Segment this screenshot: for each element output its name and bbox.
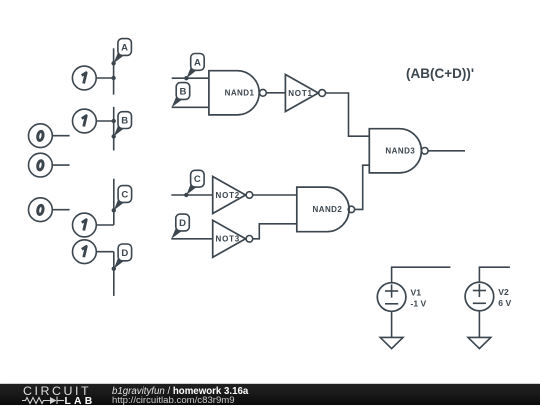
svg-text:LAB: LAB xyxy=(65,396,96,405)
svg-text:6 V: 6 V xyxy=(498,298,511,308)
NAND1 gate xyxy=(209,71,266,115)
svg-text:B: B xyxy=(179,86,186,97)
voltage source V2 6 V xyxy=(465,282,511,311)
wire V2 top xyxy=(479,267,510,282)
svg-text:NAND3: NAND3 xyxy=(385,147,415,156)
footer url text xyxy=(112,395,235,406)
voltage source V1 -1 V xyxy=(377,283,426,312)
wire NAND1 to NOT1 xyxy=(266,92,285,94)
wire NOT2 to NAND2 top input xyxy=(253,194,297,196)
svg-text:D: D xyxy=(121,248,128,259)
NAND3 gate xyxy=(369,129,428,173)
logic source 1 (drives node C) xyxy=(73,213,114,237)
svg-text:(AB(C+D))': (AB(C+D))' xyxy=(406,66,474,81)
svg-text:D: D xyxy=(179,218,186,229)
wire NOT2 input xyxy=(171,194,212,196)
junction dot node A xyxy=(111,76,115,80)
svg-text:NAND1: NAND1 xyxy=(225,89,255,98)
wire NOT1 to NAND3 top input xyxy=(326,93,370,136)
flag D (at NOT3) xyxy=(171,214,189,239)
ground G1 xyxy=(380,337,403,348)
flag B (left column) xyxy=(112,112,132,139)
svg-text:V1: V1 xyxy=(411,287,422,297)
wire NOT3 input xyxy=(171,238,212,240)
svg-text:C: C xyxy=(121,189,128,200)
flag A (at NAND1) xyxy=(184,54,204,81)
wire node C vertical xyxy=(113,179,115,225)
svg-text:A: A xyxy=(121,42,128,53)
flag D (left column) xyxy=(112,244,132,271)
wire NAND3 output xyxy=(428,150,465,152)
svg-text:NOT3: NOT3 xyxy=(216,235,241,244)
flag A (left column) xyxy=(111,39,131,66)
wire V1 bottom xyxy=(391,311,393,337)
logic source 1 (drives node A) xyxy=(72,66,113,90)
wire node A vertical xyxy=(113,48,115,94)
NOT1 gate xyxy=(285,75,325,112)
footer bar xyxy=(0,384,540,405)
logic source 1 (drives node D) xyxy=(73,240,114,264)
flag C (left column) xyxy=(112,186,132,213)
wire NAND2 to NAND3 bottom input xyxy=(355,165,370,209)
logic source 0 (unused #3) xyxy=(29,198,70,222)
wire node B vertical xyxy=(113,107,115,151)
svg-text:NAND2: NAND2 xyxy=(312,205,342,214)
wire NAND1 input A xyxy=(172,77,209,79)
svg-text:A: A xyxy=(194,57,201,68)
logic source 1 (drives node B) xyxy=(73,109,114,133)
NAND2 gate xyxy=(297,187,355,232)
svg-text:B: B xyxy=(121,116,128,127)
NOT3 gate xyxy=(213,220,253,257)
wire NAND1 input B xyxy=(172,106,209,108)
svg-text:C: C xyxy=(194,174,201,185)
NOT2 gate xyxy=(213,177,253,214)
wire node D vertical xyxy=(113,252,115,296)
junction dot node B xyxy=(112,119,116,123)
wire V1 top xyxy=(392,267,451,283)
svg-text:NOT2: NOT2 xyxy=(216,191,241,200)
logic source 0 (unused #2) xyxy=(29,153,70,177)
flag B (at NAND1) xyxy=(172,83,190,108)
footer title text xyxy=(112,386,248,397)
wire NOT3 to NAND2 bottom input xyxy=(253,224,297,239)
flag C (at NOT2) xyxy=(184,170,204,197)
ground G2 xyxy=(468,337,491,348)
expression label (AB(C+D))' xyxy=(406,66,474,81)
svg-text:-1 V: -1 V xyxy=(411,299,427,309)
svg-text:NOT1: NOT1 xyxy=(288,89,313,98)
svg-text:V2: V2 xyxy=(498,287,509,297)
wire V2 bottom xyxy=(478,311,480,338)
CircuitLab logo xyxy=(22,385,96,405)
logic source 0 (unused #1) xyxy=(29,124,70,148)
